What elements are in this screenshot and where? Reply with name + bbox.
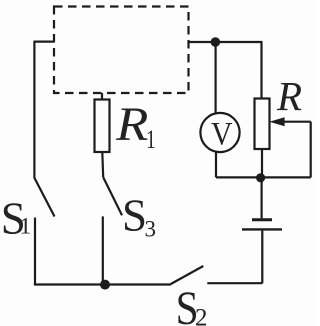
resistor R1 body <box>95 100 110 153</box>
wire bottom right horizontal <box>207 282 262 284</box>
svg-text:V: V <box>211 115 233 152</box>
node junction bottom left <box>100 280 110 290</box>
svg-text:2: 2 <box>195 305 208 326</box>
wire bottom left horizontal <box>34 283 171 285</box>
wiper arrow shaft <box>283 121 311 123</box>
wire voltmeter bottom <box>215 152 217 178</box>
battery top stub <box>261 178 263 219</box>
wire S3 bottom terminal <box>102 216 104 284</box>
wire left vertical <box>33 42 35 178</box>
switch S3 blade <box>103 178 122 216</box>
wire wiper return vertical <box>310 122 312 178</box>
wire R1 top stub <box>101 93 103 100</box>
wire rheostat top stub <box>260 42 262 99</box>
svg-text:R: R <box>276 73 302 119</box>
battery short plate (negative) <box>252 218 272 221</box>
wire R1 bottom stub <box>101 152 104 178</box>
wire bottom horizontal V-to-return <box>216 176 311 178</box>
svg-text:3: 3 <box>145 216 157 241</box>
rheostat R body <box>255 99 270 150</box>
switch S2 blade <box>171 266 204 284</box>
wire top right horizontal <box>189 41 263 43</box>
wire left stub to box <box>34 40 55 42</box>
wiper arrowhead <box>269 117 284 126</box>
node junction top (box to voltmeter/rheostat) <box>211 37 221 47</box>
wire voltmeter top <box>215 42 217 114</box>
wire S1 bottom terminal <box>34 218 36 285</box>
svg-text:1: 1 <box>20 213 32 239</box>
battery bottom stub <box>261 231 263 284</box>
svg-text:1: 1 <box>146 125 156 153</box>
svg-text:S: S <box>122 190 147 240</box>
black box (dashed rectangle) <box>54 7 189 94</box>
battery long plate (positive) <box>242 228 282 230</box>
svg-text:R: R <box>115 97 148 150</box>
voltmeter V circle <box>200 113 239 152</box>
wire rheostat bottom stub <box>261 149 263 177</box>
switch S1 blade <box>34 178 54 217</box>
node junction battery top <box>256 173 265 182</box>
